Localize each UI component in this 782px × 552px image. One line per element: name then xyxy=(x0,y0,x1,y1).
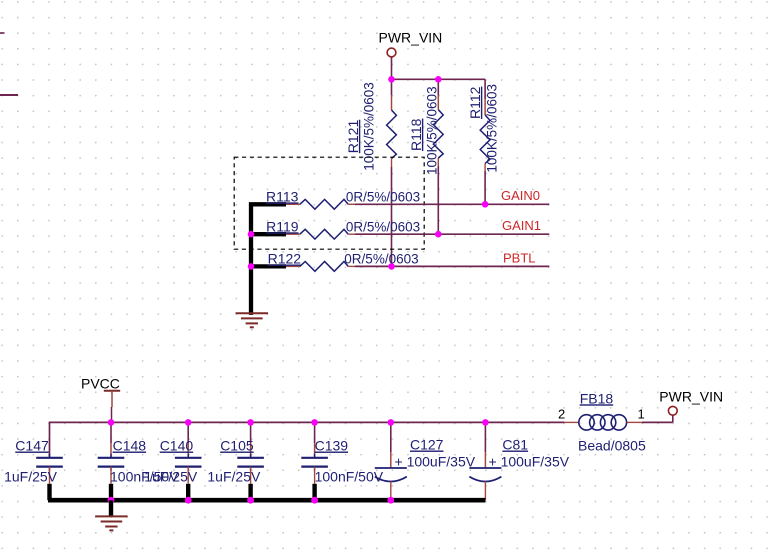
svg-text:FB18: FB18 xyxy=(580,390,614,406)
svg-text:C81: C81 xyxy=(502,437,528,453)
svg-text:0R/5%/0603: 0R/5%/0603 xyxy=(346,219,420,234)
svg-text:R118: R118 xyxy=(408,118,424,151)
svg-text:1uF/25V: 1uF/25V xyxy=(4,468,58,484)
svg-text:0R/5%/0603: 0R/5%/0603 xyxy=(344,252,418,267)
svg-text:PBTL: PBTL xyxy=(503,251,536,266)
svg-text:2: 2 xyxy=(558,406,565,421)
svg-text:GAIN0: GAIN0 xyxy=(501,188,540,203)
svg-text:PWR_VIN: PWR_VIN xyxy=(379,30,443,46)
svg-text:R119: R119 xyxy=(266,218,299,234)
svg-text:PWR_VIN: PWR_VIN xyxy=(659,388,723,404)
svg-text:C140: C140 xyxy=(160,438,194,454)
svg-text:100nF/50V: 100nF/50V xyxy=(315,468,384,484)
svg-text:R121: R121 xyxy=(345,120,361,154)
svg-text:GAIN1: GAIN1 xyxy=(502,218,541,233)
svg-text:C127: C127 xyxy=(410,437,444,453)
svg-text:R122: R122 xyxy=(268,251,302,267)
svg-text:PVCC: PVCC xyxy=(81,376,120,392)
svg-text:C147: C147 xyxy=(15,438,49,454)
svg-text:C148: C148 xyxy=(113,438,147,454)
svg-text:C139: C139 xyxy=(315,438,349,454)
svg-text:R112: R112 xyxy=(467,86,483,119)
svg-text:+ 100uF/35V: + 100uF/35V xyxy=(489,454,570,470)
svg-text:C105: C105 xyxy=(220,438,254,454)
svg-text:R113: R113 xyxy=(266,188,299,204)
svg-text:1uF/25V: 1uF/25V xyxy=(144,468,198,484)
svg-text:1uF/25V: 1uF/25V xyxy=(207,468,261,484)
svg-text:+ 100uF/35V: + 100uF/35V xyxy=(395,454,476,470)
svg-text:0R/5%/0603: 0R/5%/0603 xyxy=(346,189,420,204)
svg-text:Bead/0805: Bead/0805 xyxy=(578,438,646,454)
svg-text:100K/5%/0603: 100K/5%/0603 xyxy=(484,84,499,173)
svg-text:1: 1 xyxy=(638,406,645,421)
svg-text:100K/5%/0603: 100K/5%/0603 xyxy=(424,86,439,175)
